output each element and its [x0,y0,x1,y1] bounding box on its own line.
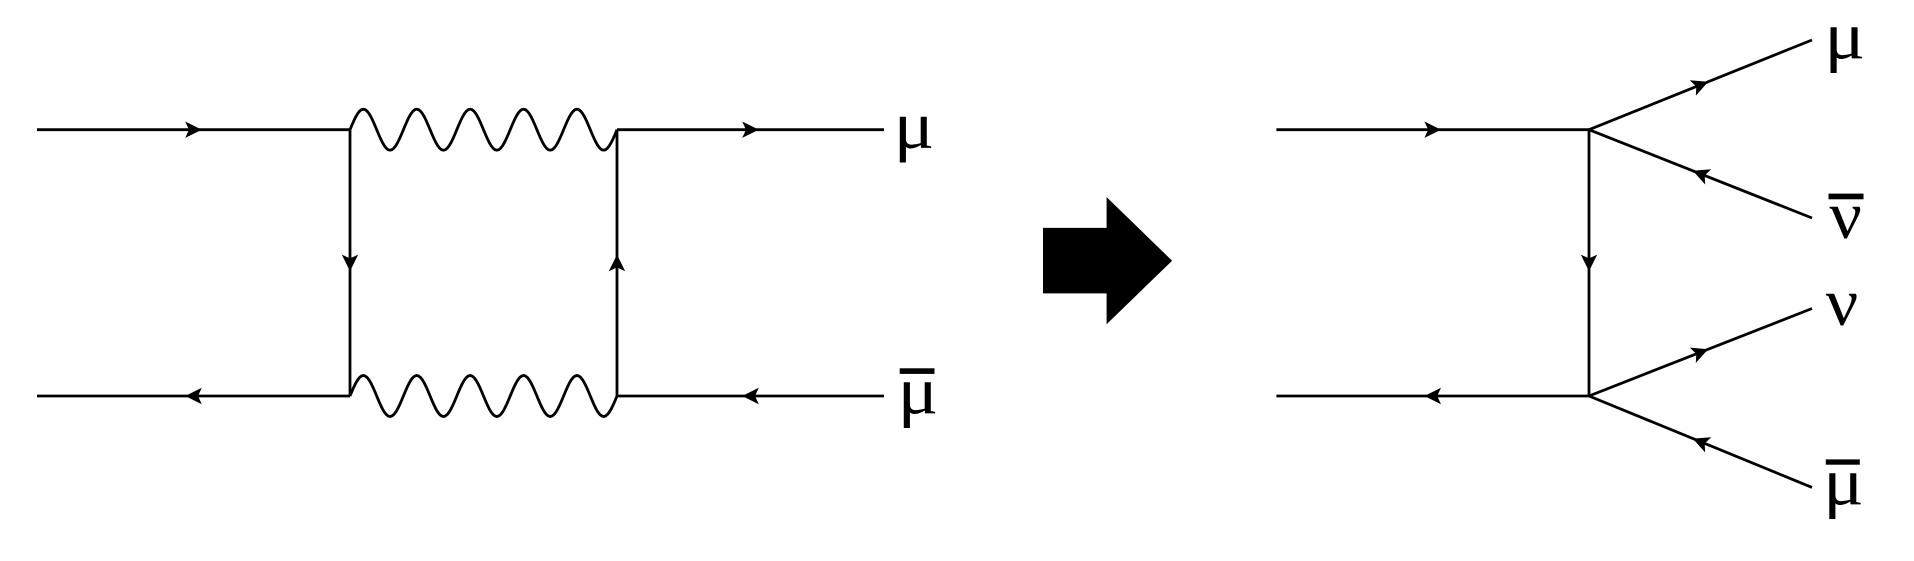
wire: left vertical internal fermion propagator [349,130,352,396]
label mu-bar (left diagram, bottom): overbar [900,368,935,374]
label mu-bar (right diagram, bottom): overbar [1826,459,1860,464]
svg-text:μ: μ [898,353,939,429]
arrowhead on top-right line (rightward) [742,122,759,138]
wire: outgoing nu line [1589,309,1812,397]
wire: bottom-right outgoing antifermion line [617,395,884,398]
svg-text:ν: ν [1826,264,1859,340]
wire: bottom-left incoming antifermion line [37,395,350,398]
arrowhead on mu line (outward) [1690,80,1709,95]
arrowhead on top-left line (rightward) [185,122,202,138]
photon: top wavy propagator [350,109,617,150]
wire: right vertical internal fermion propagator [616,130,619,396]
arrowhead on bottom-left line (leftward) [185,388,202,404]
arrowhead on mu-bar line (inward) [1693,437,1712,452]
big black implies arrow between diagrams [1043,197,1172,324]
svg-text:μ: μ [1824,0,1865,74]
arrowhead on bottom incoming line (leftward) [1424,388,1441,404]
arrowhead on left vertical (downward) [342,255,358,272]
wire: top incoming fermion line (right diagram) [1276,128,1589,131]
arrowhead on bottom-right line (leftward) [742,388,759,404]
arrowhead on right vertical (upward) [609,255,625,272]
label nu-bar: overbar [1829,194,1864,200]
wire: outgoing mu-bar line (lower) [1589,396,1812,487]
svg-text:ν: ν [1829,177,1862,253]
svg-text:μ: μ [894,87,935,163]
arrowhead on nu-bar line (inward) [1693,169,1711,184]
arrowhead on right-diagram vertical (downward) [1581,255,1597,272]
wire: outgoing nu-bar line [1589,130,1812,218]
wire: bottom incoming antifermion line (right diagram) [1276,395,1589,398]
wire: top-left incoming fermion line [37,128,350,131]
photon: bottom wavy propagator [350,376,617,417]
wire: vertical internal propagator (right diagram) [1588,130,1591,396]
wire: top-right outgoing fermion line [617,128,884,131]
arrowhead on top incoming line (rightward) [1424,122,1441,138]
svg-text:μ: μ [1823,444,1864,520]
arrowhead on nu line (outward) [1690,348,1708,363]
wire: outgoing mu line (upper) [1589,40,1812,130]
